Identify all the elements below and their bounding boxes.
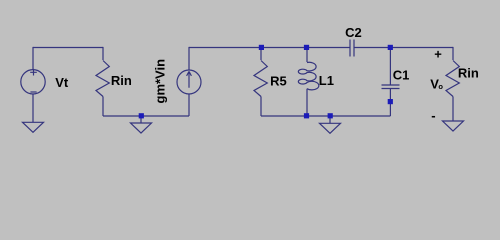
svg-text:C1: C1 (393, 68, 410, 83)
svg-text:-: - (431, 108, 435, 123)
wire top rail to C2 (189, 47, 350, 49)
resistor Rin2 zigzag (446, 61, 459, 97)
wire Rin1 bottom lead (102, 97, 104, 117)
wire ground stub tank (329, 116, 331, 123)
capacitor C2 plates (350, 40, 354, 57)
voltage source plus sign (30, 69, 37, 76)
wire current source top lead (188, 47, 190, 70)
wire Rin2 bottom lead (452, 97, 454, 122)
wire R5 top lead (260, 47, 262, 60)
junction C1 bottom (388, 99, 393, 104)
inductor L1 coil (298, 62, 319, 90)
wire C1 bottom lead (389, 89, 391, 117)
junction L1 top (304, 45, 309, 50)
junction tank ground (328, 113, 333, 118)
wire Rin2 top lead (452, 47, 454, 60)
wire current source bottom lead (188, 94, 190, 116)
junction L1 bottom (304, 113, 309, 118)
ground under Rin2 (443, 121, 464, 131)
svg-text:o: o (438, 82, 443, 91)
ground under Vt (23, 122, 44, 132)
ground under tank rail (320, 123, 341, 133)
wire Rin1 top lead (102, 47, 104, 60)
junction C1 top (388, 45, 393, 50)
resistor R5 zigzag (254, 61, 267, 97)
svg-text:Rin: Rin (458, 66, 479, 81)
current source G1 circle (177, 70, 201, 94)
svg-text:gm*Vin: gm*Vin (153, 59, 168, 104)
ground under left rail (131, 123, 152, 133)
svg-text:C2: C2 (345, 25, 362, 40)
wire top-left rail (33, 47, 103, 49)
svg-text:R5: R5 (270, 74, 287, 89)
svg-text:L1: L1 (319, 73, 334, 88)
capacitor C1 plates (382, 85, 400, 89)
voltage source V1 circle (21, 70, 45, 94)
wire R5 bottom lead (260, 97, 262, 117)
svg-text:Vt: Vt (55, 75, 69, 90)
wire ground stub left (140, 116, 142, 123)
resistor Rin1 zigzag (96, 61, 109, 97)
wire C1 top lead (389, 47, 391, 85)
wire Vt bottom lead (32, 94, 34, 122)
wire L1 top lead (306, 47, 308, 62)
junction left rail ground (139, 113, 144, 118)
wire bottom tank rail (261, 115, 390, 117)
wire C2 right to corner (354, 47, 453, 49)
wire L1 bottom lead (306, 89, 308, 116)
junction R5 top (259, 45, 264, 50)
wire Vt top lead (32, 47, 34, 70)
current source arrow (187, 71, 192, 87)
svg-text:Rin: Rin (111, 73, 132, 88)
wire bottom-left rail (103, 115, 189, 117)
voltage source minus sign (30, 91, 36, 93)
svg-text:+: + (434, 46, 442, 61)
